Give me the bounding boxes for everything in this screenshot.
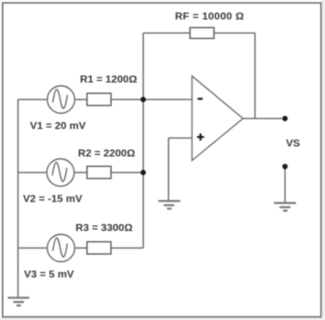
wire non-inverting to ground [168, 138, 170, 201]
resistor R1 [87, 93, 111, 105]
wire V2 to R2 [75, 172, 87, 174]
wire V2 branch [18, 172, 46, 174]
wire summing vertical [142, 33, 144, 248]
wire R1 to op-amp inverting input [111, 99, 192, 101]
ground bottom-left rail [8, 298, 30, 306]
node junction dot R2 row [141, 170, 146, 175]
svg-text:R2 = 2200Ω: R2 = 2200Ω [78, 148, 135, 160]
wire V3 to R3 [76, 247, 88, 249]
svg-text:V2 = -15 mV: V2 = -15 mV [23, 193, 82, 205]
resistor RF [190, 28, 214, 39]
voltage source V2 [47, 159, 74, 186]
wire V1 to R1 [76, 99, 88, 101]
wire VS ground stub [284, 167, 286, 203]
wire non-inverting input [169, 137, 193, 139]
svg-text:V3 = 5 mV: V3 = 5 mV [24, 269, 74, 281]
wire R2 to summing node [111, 172, 143, 174]
resistor R3 [87, 242, 111, 254]
wire left rail [17, 100, 19, 298]
wire V3 branch [18, 247, 47, 249]
voltage source V3 [47, 234, 74, 261]
node output terminal dot [282, 116, 287, 121]
ground at VS terminal [274, 203, 296, 211]
wire feedback right vertical [254, 33, 256, 119]
wire RF top horizontal [143, 32, 255, 34]
svg-text:V1 = 20 mV: V1 = 20 mV [30, 120, 86, 132]
wire op-amp output [243, 118, 285, 120]
svg-text:RF = 10000 Ω: RF = 10000 Ω [175, 11, 244, 23]
resistor R2 [87, 166, 111, 178]
wire R3 to summing vertical [111, 247, 143, 249]
svg-text:VS: VS [286, 138, 300, 150]
ground below non-inverting input [158, 201, 180, 209]
voltage source V1 [47, 86, 74, 113]
node junction dot R1 row [141, 97, 146, 102]
wire V1 branch [18, 99, 47, 101]
svg-text:R1 = 1200Ω: R1 = 1200Ω [80, 74, 137, 86]
svg-text:R3 = 3300Ω: R3 = 3300Ω [76, 222, 133, 234]
node VS ground terminal dot [282, 164, 287, 169]
op-amp U1 [192, 76, 243, 161]
